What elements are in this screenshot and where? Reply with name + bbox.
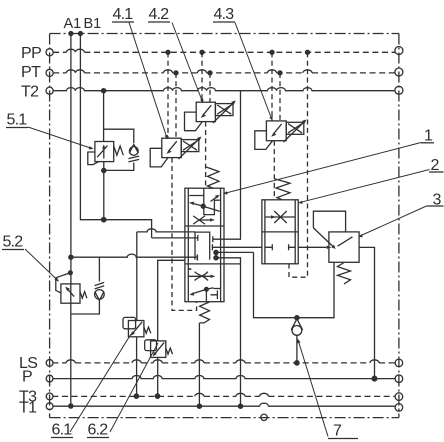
valve 1 position divider lower — [185, 263, 224, 265]
wire divider link to tank drop — [224, 263, 241, 265]
valve 4.1 solenoid slash arrow — [179, 139, 200, 160]
wire PP to 4.1 — [167, 52, 169, 138]
wire check valve 7 to LS — [296, 335, 298, 363]
port LS right — [395, 359, 403, 367]
node 5.1 outlet — [102, 168, 106, 172]
wire P out of centre position — [212, 246, 262, 248]
wire drain to bypass channel — [216, 251, 254, 253]
valve 1 top throttle line — [199, 219, 210, 221]
valve 5.1 pilot tab — [88, 152, 99, 165]
valve 1 inner right edge — [220, 188, 222, 302]
node check valve 7 at LS — [295, 361, 299, 365]
port PP — [46, 49, 53, 56]
valve 1 bottom right link — [213, 288, 220, 290]
node valve 3 at P line — [372, 376, 377, 381]
wire PP to 4.3 — [271, 52, 273, 121]
node PP-4.3 — [270, 50, 274, 54]
valve 4.1 proportional cross — [183, 141, 197, 150]
port T1 right — [395, 404, 403, 412]
valve 1 bottom diagonal flow — [192, 288, 213, 294]
valve 1 centre drain node lower — [214, 256, 218, 260]
valve 1 top throttle arrowhead — [210, 218, 215, 221]
solenoid valve 4.2 body — [196, 102, 215, 121]
relief valve 6.2 body — [151, 341, 166, 358]
valve 2 inner right edge — [294, 200, 296, 264]
svg-text:5.1: 5.1 — [7, 112, 28, 129]
relief valve 6.1 body — [128, 321, 144, 337]
valve 1 centre node link — [215, 252, 217, 257]
valve 1 outer body — [185, 188, 224, 302]
valve 1 top position up-right arrow — [211, 197, 218, 202]
node PT-4.1 — [174, 71, 178, 75]
valve 1 bottom throttle arrowhead — [211, 275, 216, 278]
valve 6.1 slash arrow — [133, 322, 142, 333]
valve 1 centre A-port stub — [196, 255, 198, 261]
valve 4.3 flow arrow — [273, 124, 281, 134]
check valve 5.2 seat ticks — [95, 282, 105, 289]
valve 5.1 flow arrow — [103, 148, 105, 159]
leader 5.1 — [28, 127, 91, 148]
port PP right — [395, 47, 403, 55]
wire PT to 4.1 — [175, 73, 177, 138]
node B1 top — [78, 32, 82, 36]
wire T2 to valve 5.1 inlet — [103, 91, 105, 142]
valve 2 inner left edge — [264, 200, 266, 264]
valve 1 bottom node drop — [205, 289, 207, 301]
check valve 5.2 ball — [95, 290, 105, 300]
leader 4.1 — [129, 23, 167, 137]
valve 5.1 setting slash — [97, 146, 107, 158]
valve 6.2 spring — [166, 348, 173, 354]
valve 4.3 output pilot line to compensator spring — [273, 141, 275, 200]
port PT right — [395, 68, 403, 76]
svg-text:4.2: 4.2 — [149, 6, 170, 23]
valve 2 upper throttle cross — [274, 211, 287, 223]
valve 6.2 slash arrow — [155, 342, 164, 353]
boundary left edge — [49, 34, 51, 418]
check valve 7 ball — [292, 326, 302, 336]
wire 5.1 bypass lower — [104, 163, 134, 171]
wire LS bus — [52, 362, 395, 364]
valve 3 internal diagonal — [338, 237, 353, 246]
valve 1 bottom left edge tick — [188, 268, 191, 270]
svg-text:PT: PT — [21, 64, 41, 81]
node PP-4.1 — [166, 50, 170, 54]
port T2 right — [395, 86, 403, 94]
port P right — [395, 375, 403, 383]
wire valve 1 drain to T1 — [198, 323, 200, 406]
valve 4.2 output pilot line — [205, 122, 207, 188]
node tank drop at T1 — [238, 404, 242, 408]
check valve 5.1 seat — [129, 144, 138, 153]
node valve drain at T1 — [197, 404, 201, 408]
node PP-4.2 — [200, 50, 204, 54]
node 5.2 pilot tap — [69, 271, 73, 275]
wire A-port sensing line — [71, 254, 197, 260]
valve 1 centre T2-stub bar — [212, 236, 214, 242]
port PT — [46, 69, 53, 76]
node PT-4.2 — [208, 71, 212, 75]
wire A-branch into valve (from 6.1 riser) — [137, 229, 195, 232]
svg-text:4.1: 4.1 — [113, 6, 134, 23]
valve 4.1 output pilot line to main spool lower end — [172, 158, 197, 311]
node A1 top — [69, 32, 73, 36]
leader 5.2 — [25, 249, 57, 280]
valve 1 centre P-stub bar — [211, 244, 213, 250]
wire valve 3 outlet to P — [359, 247, 374, 378]
compensator spring — [275, 179, 291, 200]
check valve 5.1 spring ticks — [128, 156, 139, 162]
valve 4.2 solenoid slash arrow — [213, 103, 234, 124]
node check valve 7 tap — [295, 316, 299, 320]
node PP-comp — [306, 50, 310, 54]
svg-text:6.1: 6.1 — [52, 422, 73, 439]
valve 1 top position inlet step — [189, 188, 204, 195]
leader 7 — [299, 342, 329, 437]
svg-text:T1: T1 — [19, 400, 37, 417]
wire T1 bus — [53, 403, 395, 406]
check valve 5.2 seat — [95, 292, 104, 301]
svg-text:4.3: 4.3 — [214, 6, 235, 23]
valve 1 bottom throttle line — [188, 275, 210, 277]
wire PT to 4.2 — [209, 73, 211, 102]
valve 1 top position down diagonal — [203, 206, 220, 211]
wire 5.2 drain to T1 — [70, 303, 72, 406]
solenoid valve 4.3 body — [266, 121, 286, 141]
valve 6.2 pilot tab — [145, 340, 157, 351]
reducing valve 5.1 body — [95, 142, 114, 162]
check valve 7 seat — [291, 319, 302, 330]
valve 4.2 proportional cross — [217, 105, 231, 114]
wire tank drop from centre — [216, 258, 241, 406]
port P — [46, 375, 53, 382]
node A1 branch — [69, 255, 73, 259]
wire P bus — [52, 376, 395, 379]
valve 5.2 spring — [80, 292, 87, 299]
leader 1 — [226, 143, 421, 194]
valve 1 top position left arrow — [192, 203, 203, 206]
valve 3 pilot chamber — [313, 211, 345, 232]
valve 2 position divider — [262, 231, 298, 233]
node 5.2 drain at T1 — [69, 404, 73, 408]
valve 6.1 pilot tab — [123, 317, 136, 328]
leader 3 — [361, 206, 427, 236]
valve 3 sensing diagonal — [313, 228, 333, 247]
valve 4.1 pilot tab — [150, 148, 168, 167]
solenoid valve 4.1 body — [162, 138, 181, 157]
wire PT bus — [53, 72, 395, 74]
wire main valve A-port to 6.1 — [136, 232, 138, 321]
wire A1 — [70, 34, 72, 284]
boundary bottom edge — [50, 417, 399, 419]
check valve 5.1 ball — [129, 147, 138, 156]
node 5.1 drain junction — [102, 218, 106, 222]
wire 5.1 bypass upper — [104, 129, 134, 143]
valve 4.3 proportional box — [286, 122, 304, 134]
node 6.2 at T3 — [155, 394, 159, 398]
valve 1 bottom flow node — [205, 287, 209, 291]
valve 4.3 proportional cross — [288, 124, 302, 133]
wire main valve B-port to 6.2 — [158, 260, 185, 341]
svg-text:T2: T2 — [21, 84, 39, 101]
wire B1 — [80, 34, 151, 238]
valve 4.2 proportional box — [215, 104, 233, 116]
wire A1 to 5.2 (A1 column lower) — [70, 284, 72, 303]
port T3 — [46, 393, 53, 400]
valve 1 centre B-port stub — [152, 235, 198, 241]
wire PT to 4.3 — [279, 73, 281, 121]
valve 5.1 spring — [114, 146, 124, 155]
valve 6.1 spring — [144, 327, 151, 333]
port bottom drain — [261, 414, 267, 420]
svg-text:7: 7 — [333, 423, 342, 440]
valve 1 top position channel step — [204, 196, 220, 215]
valve 1 top position node — [201, 204, 205, 208]
port T2 — [46, 87, 53, 94]
svg-text:B1: B1 — [84, 16, 102, 32]
wire P to valve 3 inlet — [298, 246, 326, 248]
port LS — [46, 360, 53, 367]
valve 5.2 pilot tab — [56, 273, 70, 293]
leader 6.2 — [110, 343, 158, 432]
valve 3 body — [329, 232, 359, 262]
valve 3 inlet arrowhead — [327, 246, 332, 249]
svg-text:5.2: 5.2 — [3, 234, 24, 251]
valve 1 top throttle cross — [193, 216, 205, 224]
wire 5.2 outlet merge — [71, 300, 100, 314]
wire PP to 4.2 — [201, 52, 203, 102]
wire 5.1 outlet drain — [103, 162, 105, 220]
wire PP bus — [53, 51, 395, 53]
valve 1 bottom arrowhead — [189, 292, 194, 295]
svg-text:A1: A1 — [64, 16, 82, 32]
leader 4.3 — [235, 23, 271, 119]
valve 5.2 flow arrow — [68, 289, 75, 296]
node 6.1 at T3 — [134, 394, 138, 398]
valve 1 centre drain node upper — [214, 250, 218, 254]
valve 4.3 pilot tab — [255, 131, 273, 150]
wire 6.2 drain to T3 — [157, 357, 159, 395]
wire T2 bus — [53, 88, 395, 91]
svg-text:1: 1 — [424, 128, 433, 145]
valve 2 upper flow arrowhead — [271, 215, 276, 218]
svg-text:P: P — [22, 369, 32, 386]
node T2-5.1 — [102, 89, 106, 93]
boundary right edge — [398, 34, 400, 418]
valve 1 lower spring — [199, 302, 209, 323]
valve 2 lower blocked stubs — [265, 244, 295, 250]
wire T3 bus — [52, 395, 395, 397]
valve 2 upper flow line — [265, 216, 295, 218]
valve 4.1 proportional box — [181, 140, 199, 152]
leader 6.1 — [70, 334, 131, 432]
leader 2 — [301, 170, 430, 203]
wire 5.2 bypass check feed — [98, 257, 100, 281]
wire bypass channel — [254, 252, 335, 317]
wire 6.1 drain to T3 — [136, 337, 138, 396]
node PT-4.3 — [278, 71, 282, 75]
valve 4.3 solenoid slash arrow — [284, 122, 305, 143]
valve 2 outer body — [262, 200, 298, 264]
port T3 right — [395, 393, 403, 401]
valve 4.1 flow arrow — [169, 141, 177, 151]
valve 3 sensing arrowhead — [331, 245, 335, 249]
svg-text:PP: PP — [21, 45, 41, 62]
relief valve 5.2 body — [61, 284, 80, 303]
boundary top edge — [50, 33, 399, 35]
leader 4.2 — [172, 23, 202, 101]
valve 1 inner left edge — [187, 188, 189, 302]
wire PP pilot to compensator spring end — [289, 52, 308, 277]
valve 1 position divider upper — [185, 225, 224, 227]
valve 4.2 pilot tab — [185, 112, 203, 131]
valve 1 bottom T-bar — [211, 291, 218, 300]
main spool upper spring — [206, 167, 219, 189]
valve 1 bottom throttle cross — [195, 272, 208, 281]
valve 3 spring — [338, 263, 351, 284]
wire T2 drop into centre position — [213, 91, 241, 240]
valve 4.2 flow arrow — [203, 105, 211, 115]
svg-text:6.2: 6.2 — [88, 422, 109, 439]
port T1 — [46, 403, 53, 410]
valve 1 centre blocked bracket — [195, 232, 210, 260]
